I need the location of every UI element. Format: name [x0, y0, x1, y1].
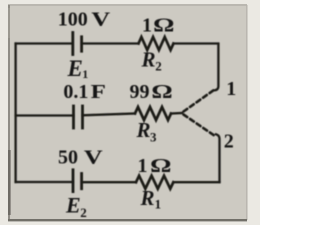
svg-text:V: V [91, 8, 110, 30]
battery E1 long plate [71, 33, 74, 55]
wire: right vertical down to terminal 1, ends with hook [215, 44, 219, 91]
svg-text:1: 1 [82, 67, 88, 81]
wire: battery E2 to bottom-left corner [16, 181, 73, 183]
svg-text:100: 100 [58, 9, 88, 31]
wire: middle branch left [16, 114, 74, 116]
svg-text:2: 2 [224, 131, 234, 153]
wire: battery E1 to resistor R2 [82, 42, 139, 44]
svg-text:1: 1 [138, 155, 148, 177]
svg-text:F: F [91, 80, 106, 102]
svg-text:Ω: Ω [153, 15, 174, 37]
svg-text:Ω: Ω [151, 81, 172, 103]
resistor R1 [136, 176, 173, 189]
wire: bottom, corner to resistor R1 [174, 181, 220, 183]
svg-text:1: 1 [142, 15, 152, 37]
resistor R3 [135, 107, 171, 120]
wire: terminal 2 (hook) down to bottom-right corner [216, 134, 220, 182]
svg-text:1: 1 [155, 197, 162, 212]
svg-text:R: R [140, 186, 155, 210]
battery E1 short plate [80, 37, 83, 51]
wire: resistor R3 to switch pole node [171, 112, 182, 115]
svg-text:V: V [84, 146, 103, 168]
wire: capacitor to resistor R3 [83, 114, 136, 116]
wire: resistor R1 to battery E2 [82, 181, 136, 183]
capacitor C right plate [81, 106, 84, 128]
svg-text:Ω: Ω [150, 155, 171, 177]
svg-text:E: E [67, 56, 83, 81]
battery E2 short plate [80, 174, 83, 189]
wire: top, corner to battery E1 [16, 42, 73, 44]
svg-text:R: R [136, 118, 151, 142]
battery E2 long plate [72, 170, 75, 192]
svg-text:50: 50 [58, 147, 78, 169]
svg-text:1: 1 [226, 78, 236, 100]
svg-text:99: 99 [130, 81, 150, 103]
svg-text:2: 2 [80, 205, 87, 220]
switch dashed throw to terminal 2 [184, 115, 216, 137]
svg-text:3: 3 [150, 130, 157, 145]
capacitor C left plate [72, 106, 75, 128]
wire: resistor R2 to top-right corner [174, 42, 219, 44]
resistor R2 [139, 37, 174, 50]
svg-text:2: 2 [155, 59, 162, 74]
switch dashed throw to terminal 1 [184, 89, 217, 112]
svg-text:0.1: 0.1 [63, 81, 88, 103]
svg-text:E: E [65, 193, 81, 218]
svg-text:R: R [141, 48, 156, 72]
wire: left vertical [14, 44, 16, 183]
